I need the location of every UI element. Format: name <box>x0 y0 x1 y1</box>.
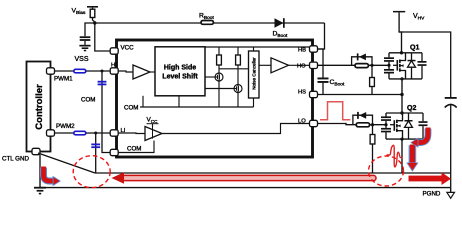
buffer A3 (low side) <box>114 124 162 141</box>
resistor Rg1 <box>355 64 368 68</box>
pin HB <box>310 46 318 52</box>
capacitor CVSS <box>80 36 91 45</box>
wire R1 node to noise canceller <box>219 68 249 70</box>
pin COM lower <box>110 149 118 155</box>
wire HO to Q1 gate <box>318 64 390 66</box>
svg-text:HB: HB <box>298 48 306 54</box>
pin LO <box>310 120 318 126</box>
node Q2 drain <box>400 111 403 114</box>
svg-text:Level Shift: Level Shift <box>162 74 198 81</box>
node HS Q1 source <box>400 93 403 96</box>
dashed ellipse right <box>369 156 404 186</box>
wire VHV to bus cap <box>399 32 451 97</box>
pin LI <box>110 130 118 136</box>
resistor Rpd2 (gate pulldown) <box>370 125 375 173</box>
capacitor CBoot <box>318 49 329 95</box>
capacitor Cli (blue) <box>91 144 100 149</box>
wire DBoot to HB <box>318 23 325 49</box>
transistor T2 internal <box>205 65 242 107</box>
ground PGND arrow <box>447 188 455 199</box>
pad PWM2 <box>47 130 55 136</box>
svg-text:LI: LI <box>121 128 126 134</box>
svg-text:COM: COM <box>81 97 95 104</box>
svg-text:Noise Canceller: Noise Canceller <box>252 57 257 90</box>
svg-text:LO: LO <box>298 119 306 125</box>
red trace arrow left <box>112 172 125 183</box>
wire level shift to COM <box>142 96 144 107</box>
resistor RBias <box>90 9 95 17</box>
wire internal COM rail <box>140 106 254 108</box>
IC body <box>117 40 313 157</box>
annotation L arrow (blue outlined) <box>44 167 62 187</box>
diode Dg1 loop <box>352 53 372 65</box>
wire PWM1 <box>51 70 115 72</box>
pad PWM1 <box>47 68 55 74</box>
node Q2 gate junction <box>371 123 374 126</box>
resistor RBoot <box>201 21 213 25</box>
svg-text:CTL GND: CTL GND <box>2 156 29 163</box>
supply VBias <box>87 6 98 9</box>
wire ground trace top (line A) <box>95 172 451 174</box>
buffer A2 (high side output) <box>259 58 310 73</box>
annotation down arrow (blue outlined) <box>406 145 418 172</box>
wire HB <box>318 48 325 50</box>
svg-text:Q1: Q1 <box>410 45 419 52</box>
transistor T1 internal <box>205 65 223 107</box>
wire to VSS cap <box>85 23 95 36</box>
wire CTL GND drop <box>39 155 41 188</box>
resistor Rpwm1 (blue) <box>74 69 86 73</box>
svg-text:HO: HO <box>297 64 306 70</box>
block noise canceller <box>249 47 260 98</box>
ground VSS <box>79 45 90 52</box>
svg-text:COM: COM <box>124 105 138 112</box>
wire VBias rail <box>93 18 325 24</box>
wire LO to Q2 gate <box>318 124 387 125</box>
svg-text:High Side: High Side <box>164 65 196 72</box>
wire PGND rail (line B) <box>40 187 451 189</box>
wire LI bypass to ground corner <box>95 133 97 173</box>
svg-text:PWM2: PWM2 <box>56 123 75 130</box>
wire PWM2 <box>51 132 115 134</box>
wire Q2 source to ground trace <box>401 139 403 173</box>
svg-text:HI: HI <box>111 63 117 69</box>
wire internal HB rail <box>205 46 312 48</box>
red trace body <box>122 175 376 180</box>
wire HS to Q2 drain <box>401 95 403 114</box>
svg-text:PGND: PGND <box>423 191 441 198</box>
pin HI <box>110 68 118 74</box>
node cap junction HI <box>101 70 104 73</box>
wire LO internal <box>162 124 310 134</box>
annotation right arrow <box>409 172 452 185</box>
diode Dg2 loop <box>353 112 373 125</box>
node A (VBias junction) <box>93 21 96 24</box>
pin HO <box>310 62 318 68</box>
resistor R1 internal <box>217 47 222 65</box>
capacitor Cbus <box>445 97 457 188</box>
annotation noise spike <box>387 145 403 167</box>
svg-text:HS: HS <box>298 90 306 96</box>
ground CTL <box>34 187 46 195</box>
svg-text:Q2: Q2 <box>407 105 416 112</box>
node Q1 gate junction <box>370 64 373 67</box>
dashed ellipse left <box>73 156 110 188</box>
wire NC to COM <box>253 98 255 107</box>
svg-text:VCC: VCC <box>121 45 135 52</box>
pin VCC <box>110 48 118 54</box>
capacitor Chi (blue) <box>98 81 107 86</box>
block high side level shift <box>155 47 205 96</box>
svg-text:VSS: VSS <box>75 56 89 63</box>
wire level shift to COM 2 <box>178 96 180 107</box>
resistor Rg2 <box>356 123 369 127</box>
wire HS <box>318 94 403 96</box>
transistor Q1 <box>384 53 427 95</box>
pin HS <box>310 91 318 97</box>
controller block <box>27 62 51 152</box>
wire VCC feed <box>95 23 110 51</box>
node Q1 drain <box>400 51 403 54</box>
annotation pulse LO <box>320 102 350 120</box>
wire HI bypass to COM pin <box>102 71 110 153</box>
svg-text:PWM1: PWM1 <box>54 76 73 83</box>
node cap junction LI <box>94 132 97 135</box>
transistor Q2 <box>381 113 428 141</box>
svg-text:COM: COM <box>127 146 141 153</box>
svg-text:Controller: Controller <box>34 84 45 130</box>
resistor R2 internal <box>236 47 241 65</box>
wire COM lower to buffer <box>114 141 154 153</box>
buffer A1 (HI input) <box>114 65 155 79</box>
supply VHV <box>393 11 405 53</box>
resistor Rpwm2 (blue) <box>74 131 86 135</box>
label VCC internal <box>147 117 159 128</box>
wire CTL GND diagonal <box>38 153 95 173</box>
annotation curved arrow Q2 <box>410 128 428 148</box>
diode DBoot <box>275 18 285 28</box>
resistor Rpd1 (gate pulldown) <box>370 65 375 94</box>
pad CTL GND <box>32 148 40 154</box>
